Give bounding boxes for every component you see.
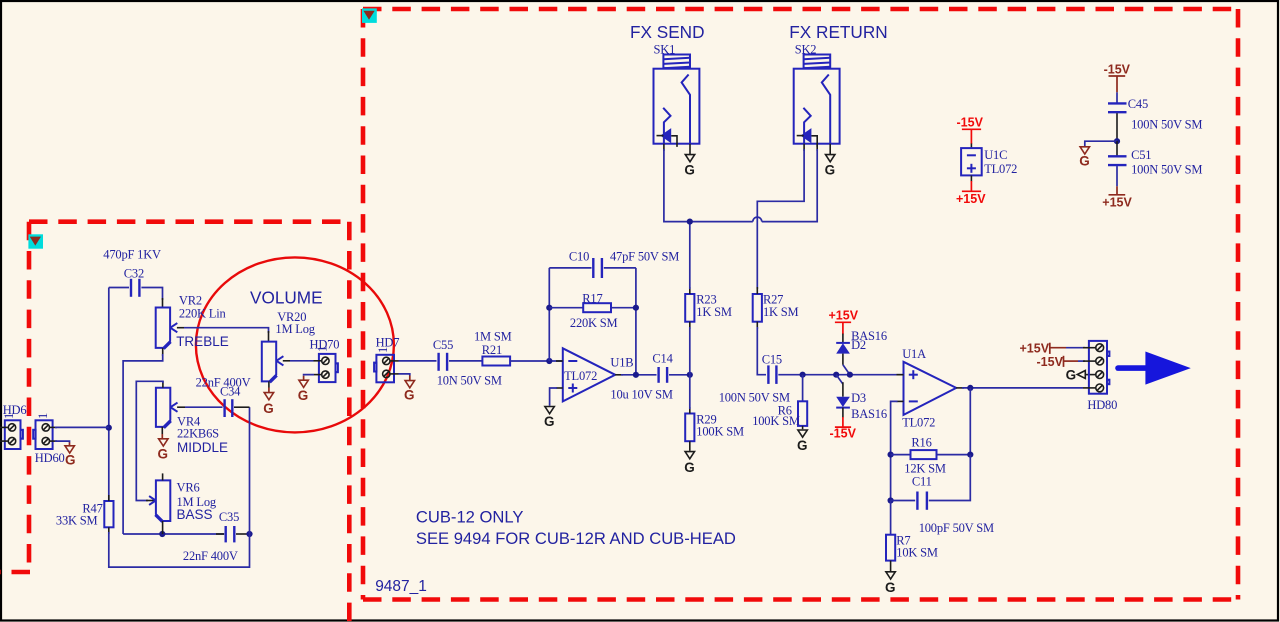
ground G under HD7 [404,381,415,403]
svg-text:R17: R17 [582,292,602,306]
ground G under SK2 [825,155,836,178]
node: feedback junction at U1B minus input [546,358,552,364]
svg-text:10u 10V SM: 10u 10V SM [610,387,672,401]
pin: C34 right stub [234,406,250,408]
svg-text:470pF 1KV: 470pF 1KV [103,248,161,262]
pin: VR4 wiper stub [177,406,185,408]
svg-text:G: G [404,388,415,403]
svg-text:C34: C34 [220,385,241,399]
ground G under VR20 [263,393,274,416]
svg-text:33K SM: 33K SM [56,514,98,528]
capacitor C11 [917,492,927,510]
wire: bottom rail [123,533,224,535]
svg-text:1M Log: 1M Log [275,322,315,336]
svg-text:VR2: VR2 [179,294,202,308]
svg-text:D2: D2 [851,338,866,352]
svg-text:D3: D3 [851,391,866,405]
svg-text:10N 50V SM: 10N 50V SM [437,374,502,388]
pin: VR6 top floating stub [162,473,164,480]
svg-text:-15V: -15V [957,116,984,130]
connector HD80 [1083,341,1109,394]
svg-text:22KB6S: 22KB6S [177,427,219,441]
svg-text:1: 1 [36,413,50,419]
svg-text:G: G [65,453,76,468]
svg-text:U1B: U1B [610,356,633,370]
wire: R27 bottom to C15 [757,327,766,375]
wire: U1A inverting input down to feedback [891,401,898,500]
wire: junction to ground G [1085,141,1117,146]
wire: R17 left segment [549,307,583,309]
svg-text:-15V: -15V [830,427,857,441]
wire: feedback left vertical [548,268,550,361]
node: R16 right junction [967,452,973,458]
wire: VR4 top loop to BASS wiper [136,381,163,500]
wire: D3 dogleg from junction [836,375,843,384]
node: U1A output junction [967,385,973,391]
pin: R7 bottom stub [890,561,892,571]
potentiometer VR4 (MIDDLE) [156,388,178,428]
node: D2 junction [847,372,853,378]
svg-text:TREBLE: TREBLE [176,334,229,349]
ground G under VR4 [158,439,169,462]
dashed highlight box (main CUB-12 region) top edge [363,7,1238,12]
pin: R29 stubs [689,407,691,414]
node: C14/R23/R29 junction [687,372,693,378]
svg-text:12K SM: 12K SM [904,462,946,476]
wire: VR2 bottom to bottom rail [123,354,163,534]
svg-text:FX SEND: FX SEND [630,22,705,42]
pin: VR20 top stub [268,331,270,342]
svg-text:100pF 50V SM: 100pF 50V SM [919,521,994,535]
power -15V at HD80 pin2 [1037,355,1086,369]
wire: SK2 tip down to R27 (crosses under hop) [757,149,804,289]
red VOLUME highlight ellipse [196,257,394,432]
wire: continue to SK2 switch contact [762,149,817,222]
ground G under HD60 [65,446,76,468]
svg-text:1: 1 [376,347,390,353]
pin: SK2 bottom stubs [803,144,805,151]
svg-text:C32: C32 [124,267,144,281]
pin: R6 bottom stub [802,426,804,429]
svg-text:+15V: +15V [1102,195,1132,209]
dashed box left edge [27,222,32,572]
wire: VR2 wiper to VR20 top [184,328,269,333]
jack socket SK1 (FX SEND) [654,55,700,147]
op-amp power symbol U1C [961,148,982,175]
pin: R27 stubs [756,287,758,294]
wire: D2 dogleg to junction [843,365,850,375]
node: C45/C51 midpoint junction [1114,138,1120,144]
svg-text:+15V: +15V [1020,342,1050,356]
svg-text:U1C: U1C [984,148,1007,162]
op-amp U1A [897,362,965,415]
svg-text:TL072: TL072 [564,369,597,383]
pin: VR20 wiper stub [283,360,290,362]
svg-text:G: G [544,414,555,429]
node: R17 left junction [546,305,552,311]
capacitor C51 [1108,141,1127,165]
wire: R17 right segment [611,307,636,309]
op-amp U1B [556,348,623,401]
wire: C55 to R21 [449,360,482,362]
connector HD60 [33,420,57,449]
svg-text:1M SM: 1M SM [474,330,512,344]
node: C11 left junction [888,497,894,503]
capacitor C55 [439,353,448,371]
wire: R16 right segment [937,454,971,456]
wire hop over FX return line [753,217,762,222]
svg-text:G: G [797,438,808,453]
wire: R23 top vertical [689,222,691,289]
power +15V at HD80 pin1 [1020,342,1086,356]
svg-text:C15: C15 [762,353,782,367]
svg-text:G: G [158,447,169,462]
wire: C11 right segment up to R16 [929,455,971,501]
ground G at C45/C51 [1079,147,1090,169]
wire: U1B plus input to ground [550,388,557,406]
capacitor C34 [225,399,233,417]
pin: R23 stubs [689,287,691,294]
wire: VR20 wiper to HD70 [290,360,314,362]
ground G under SK1 [684,155,695,178]
potentiometer VR6 (BASS) [155,480,170,522]
svg-text:G: G [263,401,274,416]
pin: SK1 bottom stubs [663,144,665,151]
svg-text:C51: C51 [1131,148,1151,162]
wire: R47 bottom loop to C35 right junction [109,532,250,567]
pin: C35 right stub [236,533,250,535]
svg-text:22nF 400V: 22nF 400V [183,549,238,563]
svg-text:100N 50V SM: 100N 50V SM [1131,117,1202,131]
wire: left vertical bus C32/R47 [108,288,110,502]
svg-text:C10: C10 [569,250,589,264]
svg-text:1: 1 [2,413,16,419]
capacitor C10 [593,258,602,278]
ground G under R6 [797,430,808,453]
resistor R21 [482,357,510,366]
wire: C10 top right segment [604,267,636,269]
svg-text:1K SM: 1K SM [763,305,799,319]
wire: C14 to R23/R29 junction [669,374,690,376]
wire: C11 junction down to R7 [890,501,892,536]
wire: feedback right vertical [635,268,637,375]
resistor R29 [685,414,694,442]
wire: R6 top [802,375,804,402]
svg-text:C55: C55 [433,338,453,352]
power -15V at U1C [957,116,984,149]
capacitor C32 [131,279,139,297]
svg-text:47pF 50V SM: 47pF 50V SM [610,250,679,264]
power +15V at D2 [829,309,859,335]
resistor R23 [685,294,694,322]
wire: HD7 pin1 to C55 [399,360,437,362]
svg-text:100K SM: 100K SM [752,414,800,428]
svg-text:G: G [684,163,695,178]
dashed box right edge [347,222,352,622]
node: R16 left junction [888,452,894,458]
power +15V at C51 [1102,166,1132,209]
wire: C32 right to VR2 top [141,288,162,301]
wire: U1A output to HD80 [962,387,1083,389]
dashed highlight box (left tone-stack region) top edge [29,219,349,224]
svg-text:SEE 9494 FOR CUB-12R AND CUB-H: SEE 9494 FOR CUB-12R AND CUB-HEAD [416,529,736,548]
node: HD60 tee into left bus [106,425,112,431]
wire: R16 left segment [891,454,911,456]
main dashed box left edge [361,9,366,600]
resistor R16 [911,450,937,459]
potentiometer VR20 (VOLUME) [262,342,284,383]
wire: output feedback vertical [969,388,971,455]
wire: HD60 pin2 to ground [55,441,70,442]
diode D3 (BAS16) [836,382,850,417]
svg-text:100N 50V SM: 100N 50V SM [1131,162,1202,176]
wire: C15 right to U1A plus input [778,374,903,376]
potentiometer VR2 (TREBLE) [156,308,178,350]
svg-text:C35: C35 [219,510,239,524]
ground G under R7 [885,572,896,595]
svg-text:U1A: U1A [902,347,926,361]
resistor R17 [583,303,611,312]
svg-text:-15V: -15V [1037,355,1064,369]
svg-text:G: G [684,460,695,475]
svg-text:10K SM: 10K SM [896,546,938,560]
node: R17 right junction [633,305,639,311]
resistor R7 [886,535,895,561]
connector HD70 [314,354,338,382]
svg-text:C11: C11 [912,475,932,489]
power -15V at C45 [1104,63,1131,93]
wire: C34 right vertical down to junction [249,407,251,534]
svg-text:R16: R16 [911,436,931,450]
svg-text:MIDDLE: MIDDLE [177,440,228,455]
pin: R47 top stub [108,495,110,501]
diode D2 (BAS16) [836,334,850,365]
svg-text:C14: C14 [652,351,673,365]
svg-text:G: G [885,580,896,595]
svg-text:+15V: +15V [956,192,986,206]
pin: VR2 bottom stub [162,348,164,356]
pin: C35 left stub [216,533,224,535]
wire: R29 top [689,375,691,409]
svg-text:220K Lin: 220K Lin [179,307,227,321]
svg-text:BASS: BASS [177,507,213,522]
output arrow [1118,352,1191,385]
svg-text:VR6: VR6 [177,481,200,495]
ground G at U1B plus input [544,407,555,430]
node: R6 junction [800,372,806,378]
wire: R21 to U1B inverting input [510,360,563,362]
wire: HD7 pin2 to ground [399,374,410,376]
pin: VR20 bottom stub [268,381,270,387]
capacitor C15 [768,365,776,384]
wire: C32 left to left bus [109,287,129,289]
pin: VR4 top stub [162,381,164,388]
svg-text:G: G [825,163,836,178]
power +15V at U1C [956,175,986,205]
resistor R6 [798,401,807,426]
wire: HD70 pin2 to ground [304,375,314,376]
svg-text:VOLUME: VOLUME [250,288,323,308]
pin: VR2 wiper stub [177,327,184,329]
ground G under HD70 [298,380,309,403]
node: BASS bottom junction [159,531,165,537]
pin: VR2 top stub [162,298,164,308]
svg-text:9487_1: 9487_1 [375,578,427,595]
cyan corner marker (left box) [28,234,43,248]
wire: VR4 wiper to C34 [185,406,223,408]
node: R23 top junction [687,219,693,225]
dashed box bottom edge stub to page edge [0,570,30,575]
svg-text:TL072: TL072 [984,162,1017,176]
node: C34/C35/R47 junction [246,531,252,537]
svg-text:G: G [298,388,309,403]
wire: R23 bottom to junction [689,327,691,375]
pin: VR6 bottom stub [162,521,164,534]
wire: C10 top left segment [549,267,591,269]
power -15V at D3 [830,417,857,440]
resistor R47 [104,501,113,527]
connector HD7 [374,355,398,383]
cyan corner marker (main box) [362,8,377,23]
svg-text:FX RETURN: FX RETURN [789,22,887,42]
ground G at HD80 pin3 [1066,368,1096,383]
jack socket SK2 (FX RETURN) [794,55,840,147]
svg-text:1K SM: 1K SM [696,305,732,319]
connector HD6 [0,420,23,449]
svg-text:HD80: HD80 [1087,398,1117,412]
svg-text:1: 1 [316,346,330,352]
svg-text:-15V: -15V [1104,63,1131,77]
wire: SK1 tip down and across to SK2 switch (with hop) [664,149,753,222]
svg-text:100K SM: 100K SM [696,425,744,439]
wire: HD60 pin1 to left bus [55,426,109,428]
svg-text:HD60: HD60 [35,451,65,465]
ground G under R29 [684,452,695,475]
svg-text:TL072: TL072 [902,416,935,430]
wire: -15V to C45 [1116,92,1118,102]
capacitor C35 [226,526,235,542]
main dashed box bottom edge [363,597,1238,602]
pin: BASS wiper stub and arrow [146,496,156,505]
pin: R47 bottom stub [108,527,110,534]
wire: U1B output to C14 [621,374,657,376]
svg-text:+15V: +15V [829,309,859,323]
svg-text:C45: C45 [1128,97,1148,111]
svg-text:BAS16: BAS16 [851,407,887,421]
svg-text:220K SM: 220K SM [570,316,618,330]
svg-text:G: G [1079,154,1090,169]
capacitor C45 [1108,103,1127,112]
pin: C45 bottom to junction [1116,113,1118,141]
resistor R27 [753,294,762,322]
node: D3 junction [833,372,839,378]
node: U1B output junction [633,372,639,378]
main dashed box right edge [1236,9,1241,600]
svg-text:CUB-12 ONLY: CUB-12 ONLY [416,508,524,527]
svg-text:G: G [1066,368,1077,383]
svg-text:R21: R21 [482,343,502,357]
capacitor C14 [659,367,668,383]
pin: VR4 bottom stub [161,427,163,434]
wire: C11 left segment [891,500,916,502]
